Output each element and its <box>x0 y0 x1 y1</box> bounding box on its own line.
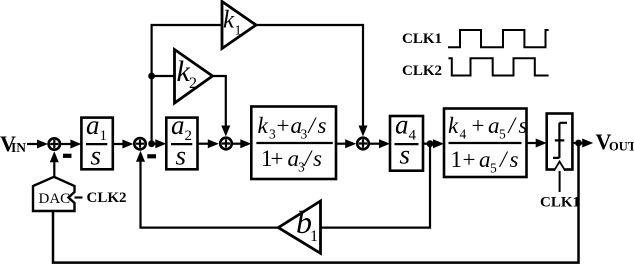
wire a1/s to summer S2 with arrowhead <box>113 140 134 149</box>
filter block H5: (k4+a5/s)/(1+a5/s) <box>444 109 528 178</box>
wire a2/s to summer S3 with arrowhead <box>198 139 219 148</box>
svg-text:k: k <box>223 7 235 34</box>
summer S1 (input summing junction) <box>49 138 60 149</box>
svg-text:CLK1: CLK1 <box>402 31 442 47</box>
wire H5 to quantizer with arrowhead <box>527 139 547 148</box>
integrator block a2/s <box>166 110 197 171</box>
svg-text:s: s <box>318 113 327 138</box>
svg-text:s: s <box>400 140 411 170</box>
svg-text:CLK1: CLK1 <box>540 195 580 211</box>
label CLK2 waveform title <box>402 63 442 79</box>
wire output feedback: node OUT down, across bottom, up to DAC <box>53 143 579 263</box>
wire H3 to summer S4 with arrowhead <box>336 139 356 148</box>
svg-text:3: 3 <box>301 127 308 142</box>
wire S3 to block H3 with arrowhead <box>233 139 251 148</box>
label CLK1 waveform title <box>402 31 442 47</box>
wire DAC output up to summer S1 with arrowhead <box>50 151 59 177</box>
CLK1 clock waveform <box>448 30 549 47</box>
svg-text:DAC: DAC <box>39 191 71 207</box>
node V_IN label <box>0 131 26 156</box>
svg-text:CLK2: CLK2 <box>87 190 127 206</box>
DAC block (pentagon) <box>33 177 75 211</box>
integrator block a4/s <box>390 110 423 171</box>
svg-text:s: s <box>91 141 102 171</box>
svg-text:s: s <box>176 141 187 171</box>
junction dot node OUT <box>575 140 582 147</box>
junction dot node B (b1 feedback tap) <box>427 140 434 147</box>
wire k2 tap to amplifier k2 input <box>152 75 175 77</box>
wire node A to block a2/s with arrowhead <box>152 139 167 148</box>
svg-text:a: a <box>395 110 409 140</box>
wire S1 to block a1/s with arrowhead <box>61 140 81 149</box>
svg-text:s: s <box>519 113 528 138</box>
summer S3 <box>220 138 232 150</box>
wire feedback b1 path: node B down and left to amplifier b1 <box>320 144 430 228</box>
wire k1 output to summer S4 drop with arrowhead <box>256 25 368 137</box>
wire k2 output to summer S3 drop with arrowhead <box>213 76 231 137</box>
svg-text:CLK2: CLK2 <box>402 63 442 79</box>
wire S4 to block a4/s with arrowhead <box>370 139 390 148</box>
svg-text:+: + <box>271 146 284 171</box>
wire riser node A up to k1 level <box>152 25 222 144</box>
minus sign at S1 feedback input <box>63 154 72 158</box>
svg-text:4: 4 <box>460 127 467 142</box>
svg-text:OUT: OUT <box>609 140 634 154</box>
node V_OUT label <box>596 129 634 154</box>
filter block H3: (k3+a3/s)/(1+a3/s) <box>251 107 336 180</box>
summer S4 <box>357 138 369 150</box>
amplifier k1 (feedforward gain) <box>222 2 256 49</box>
summer S2 <box>134 138 145 149</box>
svg-text:a: a <box>86 110 100 140</box>
wire quantizer clock input down to CLK1 label <box>559 171 561 192</box>
svg-text:1: 1 <box>451 147 463 172</box>
wire quantizer to V_OUT with arrowhead <box>572 139 593 148</box>
wire CLK2 stub into DAC <box>75 196 83 198</box>
svg-text:+: + <box>472 113 485 138</box>
wire a4/s to block H5 with arrowhead <box>423 139 444 148</box>
amplifier k2 (feedforward gain) <box>175 50 213 104</box>
integrator block a1/s <box>81 110 112 171</box>
svg-text:+: + <box>463 147 476 172</box>
CLK2 clock waveform <box>448 58 548 75</box>
svg-text:k: k <box>258 113 269 138</box>
quantizer Q1 (clocked comparator) <box>547 114 573 172</box>
minus sign at S2 feedback input <box>147 154 156 158</box>
label CLK2 at DAC <box>87 190 127 206</box>
wire V_IN to summer S1 with arrowhead <box>27 140 48 149</box>
svg-text:a: a <box>171 110 185 140</box>
svg-text:2: 2 <box>189 75 197 92</box>
svg-text:5: 5 <box>490 161 497 176</box>
wire b1 output left and up to summer S2 with arrowhead <box>136 151 278 228</box>
svg-text:5: 5 <box>499 127 506 142</box>
svg-text:s: s <box>510 147 519 172</box>
svg-text:k: k <box>448 113 459 138</box>
label CLK1 at quantizer <box>540 195 580 211</box>
svg-text:1: 1 <box>235 24 242 39</box>
amplifier b1 (feedback gain, pointing left) <box>278 201 320 253</box>
svg-text:a: a <box>488 113 500 138</box>
junction dot node A (after S2, tap for k1/k2 feedforward) <box>148 140 155 147</box>
svg-text:1: 1 <box>310 228 318 245</box>
svg-text:s: s <box>313 146 322 171</box>
junction dot on riser at k2 tap <box>148 73 155 80</box>
svg-text:3: 3 <box>269 127 276 142</box>
svg-text:a: a <box>479 147 491 172</box>
svg-text:+: + <box>277 113 290 138</box>
svg-text:IN: IN <box>11 140 26 155</box>
